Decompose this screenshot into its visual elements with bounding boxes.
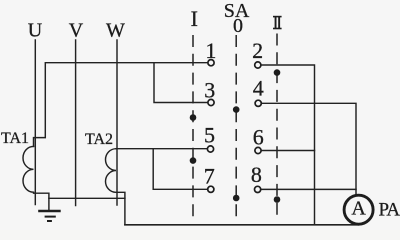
svg-text:TA2: TA2 [85,131,113,148]
svg-text:3: 3 [204,78,215,103]
svg-text:4: 4 [253,76,264,101]
svg-text:U: U [28,19,43,41]
svg-text:6: 6 [253,124,264,149]
svg-text:1: 1 [205,38,216,63]
svg-text:V: V [69,19,84,41]
svg-text:A: A [351,198,366,220]
svg-text:7: 7 [204,163,215,188]
svg-text:W: W [106,19,125,41]
svg-text:8: 8 [251,162,262,187]
svg-text:TA1: TA1 [1,130,29,147]
svg-text:PA: PA [379,199,400,220]
svg-text:0: 0 [233,15,243,37]
svg-text:2: 2 [252,38,263,63]
svg-text:5: 5 [204,122,215,147]
svg-text:I: I [191,6,198,31]
